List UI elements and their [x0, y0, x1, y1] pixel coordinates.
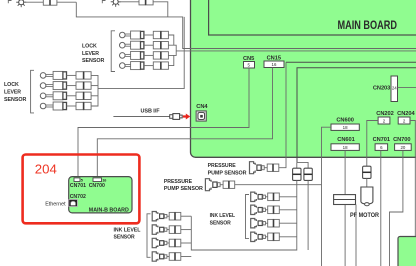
inner frame A [286, 61, 416, 63]
wire CN601 down [344, 150, 346, 266]
svg-text:SENSOR: SENSOR [210, 220, 231, 226]
relay connector block [334, 195, 356, 205]
bracket [31, 70, 34, 113]
wire [181, 229, 192, 231]
red arrow [183, 114, 190, 120]
wire: bus to left lock lever group [98, 17, 184, 89]
svg-text:24: 24 [392, 86, 397, 91]
svg-text:PUMP SENSOR: PUMP SENSOR [164, 186, 203, 192]
main-b board PCB [69, 177, 132, 213]
lock lever sensor row 1 [120, 31, 169, 39]
svg-text:PF MOTOR: PF MOTOR [350, 212, 379, 219]
svg-text:204: 204 [35, 161, 57, 176]
connector CN15 [264, 61, 284, 68]
svg-text:CN204: CN204 [397, 111, 415, 117]
ink level sensor row 6 [251, 205, 280, 214]
inline connector (ink sensors) [293, 168, 301, 180]
svg-text:LOCK: LOCK [82, 44, 98, 50]
connector CN600 [331, 124, 359, 130]
wire [279, 209, 297, 211]
lock lever sensor row 4 [120, 62, 169, 70]
svg-text:CN701: CN701 [373, 137, 390, 143]
svg-text:CN600: CN600 [336, 117, 353, 123]
wire [279, 222, 297, 224]
bracket [111, 31, 115, 72]
svg-text:LOCK: LOCK [4, 82, 20, 88]
connector CN601 [331, 144, 359, 151]
svg-text:16: 16 [272, 62, 277, 67]
svg-text:SENSOR: SENSOR [82, 58, 104, 64]
svg-text:CN700: CN700 [393, 137, 410, 143]
wire [235, 184, 322, 186]
wire [181, 256, 192, 258]
bracket [102, 1, 105, 4]
wire [118, 1, 139, 3]
pressure pump sensor 1 [250, 162, 279, 174]
pressure pump sensor 2 [205, 179, 234, 191]
label lock lever sensor (right group) [82, 44, 104, 65]
svg-text:CN601: CN601 [337, 137, 354, 143]
wire [296, 162, 298, 168]
label pressure pump sensor 1 [208, 163, 247, 177]
svg-text:LEVER: LEVER [4, 90, 21, 96]
svg-text:PRESSURE: PRESSURE [208, 163, 236, 169]
sub board PCB (bottom right) [398, 237, 416, 266]
svg-text:CN202: CN202 [376, 111, 393, 117]
label PF motor [348, 211, 380, 220]
wire [57, 1, 76, 3]
wire CN204 to board below [410, 121, 415, 237]
connector pair [43, 0, 57, 5]
svg-text:SENSOR: SENSOR [114, 234, 135, 240]
motor PF [361, 187, 373, 206]
wire [168, 45, 176, 55]
connector CN700 [395, 144, 412, 151]
lock lever sensor row 5 [40, 71, 91, 79]
wire CN15 to CN700 [97, 68, 272, 178]
sensor (paper) S1 [16, 0, 26, 7]
svg-text:16: 16 [102, 178, 106, 182]
USB plug [170, 114, 183, 120]
ink level sensor row 3 [152, 238, 181, 247]
main board inner frame [209, 0, 416, 35]
label ink level sensor (left group) [114, 227, 141, 240]
svg-text:CN700: CN700 [89, 183, 105, 189]
wire [181, 215, 192, 217]
label lock lever sensor (left group) [4, 82, 26, 103]
ink level sensor row 5 [251, 192, 280, 201]
svg-text:5: 5 [81, 178, 83, 182]
sensor (paper) S2 [111, 0, 121, 7]
connector CN204 [398, 117, 410, 124]
lock lever sensor row 8 [40, 102, 91, 110]
svg-text:CN702: CN702 [70, 194, 86, 200]
wire [279, 196, 297, 198]
svg-text:INK LEVEL: INK LEVEL [210, 213, 236, 219]
wire: sun sensors bus across board [76, 2, 416, 48]
red highlight box 204 [23, 155, 140, 224]
wire [168, 35, 173, 45]
svg-text:LEVER: LEVER [82, 51, 99, 57]
wire CN202 to motor connector [367, 121, 378, 167]
wire USB [113, 116, 169, 118]
wire [153, 2, 168, 17]
bracket [246, 195, 250, 239]
wire CN5 to CN701 [78, 68, 249, 178]
connector CN202 [378, 117, 390, 124]
svg-text:PUMP SENSOR: PUMP SENSOR [208, 171, 247, 177]
wire CN700 down with jog [390, 150, 403, 266]
svg-text:CN4: CN4 [196, 104, 208, 110]
connector CN4 port [196, 111, 206, 121]
connector CN701 (main-b) [74, 178, 83, 182]
wire bus [91, 75, 98, 106]
wire ink bus right [307, 180, 309, 250]
svg-text:18: 18 [343, 145, 348, 150]
ink level sensor row 2 [152, 225, 181, 234]
main board PCB [191, 0, 416, 157]
svg-text:18: 18 [343, 125, 348, 130]
wire CN203 [398, 86, 416, 88]
lock lever sensor row 3 [120, 51, 169, 59]
ink level sensor row 8 [251, 232, 280, 241]
lock lever sensor row 7 [40, 92, 91, 100]
label ink level sensor (right group) [210, 213, 236, 226]
wire [168, 55, 173, 65]
label pressure pump sensor 2 [164, 179, 203, 192]
wire to motor [366, 178, 368, 187]
wire: right lock lever group to board [176, 50, 416, 52]
connector CN702 ethernet port [69, 200, 78, 207]
ink level sensor row 1 [152, 212, 181, 221]
ink level sensor row 7 [251, 219, 280, 228]
wire [91, 85, 98, 87]
lock lever sensor row 2 [120, 41, 169, 49]
bracket [8, 1, 11, 4]
wire CN701 down [380, 150, 382, 266]
svg-text:INK LEVEL: INK LEVEL [114, 227, 141, 233]
svg-text:USB I/F: USB I/F [141, 108, 161, 114]
ink level sensor row 4 [152, 252, 181, 261]
wire [91, 95, 98, 97]
inline connector (motor) [363, 166, 371, 178]
connector pair [139, 0, 153, 5]
wire from relay block down [355, 205, 357, 266]
svg-text:MAIN BOARD: MAIN BOARD [338, 18, 398, 32]
connector CN5 [244, 62, 255, 69]
wire ink bus left [191, 180, 296, 250]
inline connector (ink sensors) [304, 168, 312, 180]
wire [279, 62, 286, 167]
connector CN700 (main-b) [93, 178, 106, 182]
bracket [147, 214, 151, 257]
inner frame B [297, 68, 416, 163]
connector CN701 [375, 144, 388, 151]
wire [279, 236, 297, 238]
wire [24, 1, 43, 3]
svg-text:CN701: CN701 [70, 183, 86, 189]
svg-text:SENSOR: SENSOR [4, 97, 26, 103]
wire CN600 to pressure pump sensor [322, 127, 332, 266]
svg-text:CN203: CN203 [373, 85, 390, 91]
svg-text:MAIN-B BOARD: MAIN-B BOARD [89, 208, 129, 214]
svg-text:20: 20 [400, 145, 405, 150]
wire [181, 242, 192, 244]
connector CN203 [391, 76, 398, 102]
wire frame B to inline connectors [297, 162, 308, 168]
svg-text:Ethernet: Ethernet [45, 201, 66, 207]
svg-text:PRESSURE: PRESSURE [164, 179, 192, 185]
lock lever sensor row 6 [40, 82, 91, 90]
